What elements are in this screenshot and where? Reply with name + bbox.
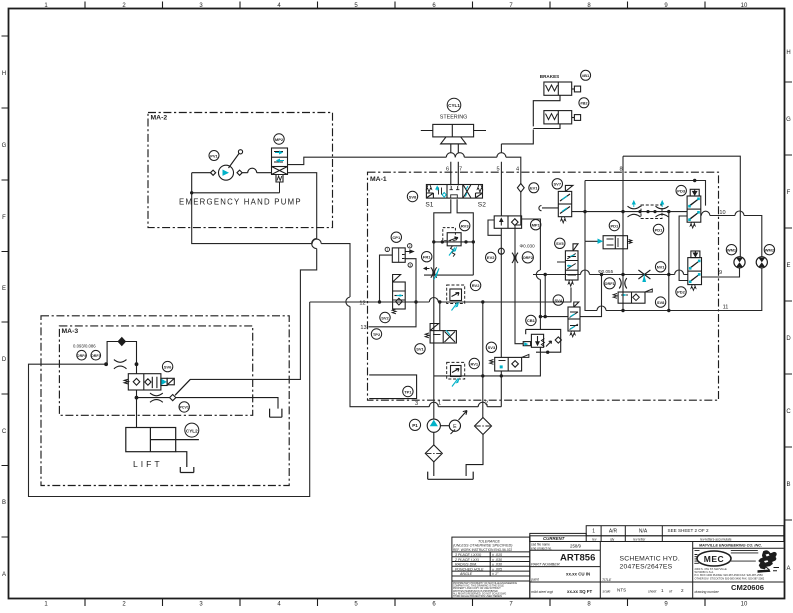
svg-text:± .005: ± .005 xyxy=(492,567,502,571)
wire line 11 xyxy=(585,241,762,310)
label CYL1 xyxy=(447,98,461,112)
wire line 13 xyxy=(369,302,417,327)
wire CP1 loop left xyxy=(380,255,393,302)
junction CP1 loop on line 12 xyxy=(378,300,381,303)
svg-text:CP1: CP1 xyxy=(392,235,401,240)
solenoid valve SV2 xyxy=(392,275,405,314)
svg-text:paint: paint xyxy=(530,578,540,582)
svg-text:SV4: SV4 xyxy=(555,298,563,303)
svg-text:MA-1: MA-1 xyxy=(370,176,387,183)
wire brakes to line 5 xyxy=(501,95,560,144)
svg-text:EV1: EV1 xyxy=(530,186,538,191)
wire SV7 right to divider rail xyxy=(572,211,687,213)
wire TP1 line xyxy=(434,352,541,376)
junction port8 riser on rail xyxy=(621,210,624,213)
svg-text:PD3: PD3 xyxy=(677,188,686,193)
svg-text:2: 2 xyxy=(681,588,684,593)
svg-text:THIRD ANGLE PROJECTION USED HE: THIRD ANGLE PROJECTION USED HEREIN xyxy=(453,595,502,598)
junction SV4 riser on line 9 xyxy=(600,273,603,276)
cylinder CYL1 xyxy=(433,124,474,136)
svg-text:scale: scale xyxy=(603,590,611,594)
company column xyxy=(693,548,784,582)
check valve EV1 xyxy=(517,184,524,193)
svg-text:ART856: ART856 xyxy=(560,553,595,564)
wire line 9 to WM1 xyxy=(702,268,740,277)
solenoid valve SV1 xyxy=(425,324,456,344)
svg-text:13: 13 xyxy=(360,325,366,331)
part number column text xyxy=(530,543,595,595)
wire box rail top xyxy=(585,181,706,242)
current cell xyxy=(530,533,586,541)
solenoid valve SVB xyxy=(613,289,652,303)
wire CB1 to SV4 xyxy=(540,316,568,318)
svg-text:± 1°: ± 1° xyxy=(492,572,499,576)
svg-text:PV1: PV1 xyxy=(210,153,218,158)
svg-text:1: 1 xyxy=(661,588,664,593)
orifice FR1 xyxy=(424,267,437,277)
wire RV3 cross line xyxy=(434,241,474,243)
svg-text:P1: P1 xyxy=(412,423,418,428)
svg-text:NV1: NV1 xyxy=(657,265,666,270)
svg-text:D: D xyxy=(2,357,7,363)
wire SV4 right riser xyxy=(580,275,602,317)
wire line 9 drop to SV4 rail xyxy=(544,275,546,317)
svg-text:H: H xyxy=(2,71,6,77)
svg-text:ANGLE: ANGLE xyxy=(459,572,473,576)
wire port 2 filter return xyxy=(482,302,484,418)
wire line 12 down to tank loop xyxy=(29,302,310,497)
svg-text:xx.xx CU IN: xx.xx CU IN xyxy=(566,572,590,577)
wire line 12 xyxy=(310,288,571,303)
wire hand pump suction to tank line xyxy=(192,193,502,407)
wire CP1 loop right xyxy=(405,259,416,302)
svg-text:RADIUS DIM.: RADIUS DIM. xyxy=(455,563,477,567)
check valve diamond right xyxy=(237,170,242,175)
wire pump to MP2 xyxy=(242,168,271,173)
wire pump left xyxy=(192,173,280,193)
junction drain riser on line 11 xyxy=(667,309,670,312)
svg-text:WM2: WM2 xyxy=(765,248,775,253)
enclosure lift module xyxy=(41,316,289,486)
svg-text:PD2: PD2 xyxy=(677,290,686,295)
valve MP2 xyxy=(272,148,288,167)
label SV6 xyxy=(162,361,172,371)
svg-text:A: A xyxy=(786,566,790,572)
svg-text:PCV1: PCV1 xyxy=(180,406,189,410)
svg-text:SV7: SV7 xyxy=(554,182,562,187)
port numbers xyxy=(359,167,728,408)
svg-text:Φ0.030: Φ0.030 xyxy=(520,244,536,249)
brake cylinder 1 xyxy=(544,82,572,95)
svg-text:± .015: ± .015 xyxy=(492,553,502,557)
junction line 9 drop bottom xyxy=(544,315,547,318)
manifold box MA-2 xyxy=(148,113,333,228)
svg-text:TITLE: TITLE xyxy=(602,578,612,582)
svg-text:B: B xyxy=(2,500,6,506)
svg-text:SV2: SV2 xyxy=(381,315,389,320)
label EV1 xyxy=(529,183,539,193)
svg-text:EMERGENCY HAND PUMP: EMERGENCY HAND PUMP xyxy=(179,198,302,207)
label ORF2 xyxy=(522,252,533,263)
label CYL2 xyxy=(185,423,199,437)
label PD1 (divider) xyxy=(653,224,663,234)
relief valve RV3 xyxy=(443,228,461,257)
svg-text:2: 2 xyxy=(485,400,488,406)
junction PD3 feed on box rail xyxy=(693,179,696,182)
svg-text:PD1: PD1 xyxy=(611,223,620,228)
wire SV3 return down xyxy=(500,228,502,406)
valve SV6 spring xyxy=(124,379,128,384)
svg-text:SV8: SV8 xyxy=(409,194,417,199)
hand pump PV1 xyxy=(219,165,234,180)
label WM1 xyxy=(726,245,736,255)
svg-text:MEC: MEC xyxy=(704,554,724,564)
label SV2 xyxy=(380,312,390,322)
label RV1 xyxy=(469,358,479,368)
svg-text:G: G xyxy=(786,117,791,123)
wire brakes down line 5 xyxy=(500,144,502,216)
filter 2 xyxy=(475,418,492,435)
svg-text:TP2: TP2 xyxy=(373,332,381,337)
brake cylinder 2 xyxy=(544,111,572,124)
wire port 8 riser xyxy=(623,156,740,310)
label PD1 left xyxy=(609,220,619,230)
junction port2 riser on TP1 line xyxy=(481,374,484,377)
svg-text:4: 4 xyxy=(516,167,519,173)
svg-text:3: 3 xyxy=(409,263,411,267)
svg-text:qty: qty xyxy=(610,538,615,542)
valve MP1 xyxy=(494,216,521,228)
svg-text:xx.xx SQ FT: xx.xx SQ FT xyxy=(567,589,592,594)
junction lift valve outlet xyxy=(135,396,139,400)
relief valve RV1 xyxy=(447,362,465,379)
svg-text:A: A xyxy=(2,572,6,578)
svg-text:SV3: SV3 xyxy=(488,345,496,350)
tolerance block text xyxy=(453,540,512,577)
svg-text:SV5: SV5 xyxy=(556,241,564,246)
svg-text:H: H xyxy=(786,50,790,56)
wire PCV1 right to drain xyxy=(176,398,278,409)
svg-text:7: 7 xyxy=(459,167,462,173)
svg-text:2047ES/2647ES: 2047ES/2647ES xyxy=(620,563,673,570)
svg-text:3: 3 xyxy=(415,401,418,407)
company column xyxy=(694,543,779,594)
svg-text:MP2: MP2 xyxy=(275,137,284,142)
svg-text:FR1: FR1 xyxy=(423,255,431,260)
svg-text:G: G xyxy=(2,143,7,149)
svg-text:S2: S2 xyxy=(478,202,486,209)
svg-text:5: 5 xyxy=(496,167,499,173)
node PCV1 diamond xyxy=(170,395,176,401)
svg-text:6: 6 xyxy=(446,167,449,173)
needle valve NV1 xyxy=(638,270,650,279)
cyan pump triangle xyxy=(223,170,230,176)
label WM2 xyxy=(764,245,774,255)
svg-text:(UNLESS OTHERWISE SPECIFIED): (UNLESS OTHERWISE SPECIFIED) xyxy=(453,544,512,548)
svg-text:1: 1 xyxy=(438,400,441,406)
valve SV5 xyxy=(557,244,578,286)
check EV2 xyxy=(498,248,504,254)
label ORF4 xyxy=(77,350,87,360)
svg-text:10: 10 xyxy=(741,3,748,9)
label MP2 xyxy=(274,134,284,144)
junction SV1 feed on line 12 xyxy=(438,300,441,303)
tolerance block outline xyxy=(452,537,530,598)
label #B2 xyxy=(579,98,589,108)
svg-text:MA-3: MA-3 xyxy=(62,328,79,335)
svg-text:F: F xyxy=(2,215,6,221)
label RV3 xyxy=(460,220,470,230)
svg-text:RV3: RV3 xyxy=(461,223,469,228)
svg-text:PART NUMBER: PART NUMBER xyxy=(531,561,560,566)
svg-text:1: 1 xyxy=(592,529,595,535)
title column xyxy=(600,542,692,599)
svg-text:SEE SHEET 2 OF 2: SEE SHEET 2 OF 2 xyxy=(668,528,709,533)
svg-text:REF. WORK INSTRUCTION ENG-56-0: REF. WORK INSTRUCTION ENG-56-022 xyxy=(453,548,512,552)
svg-text:± .030: ± .030 xyxy=(492,563,502,567)
orifice arcs on drain line xyxy=(150,393,163,402)
valve SV6 body xyxy=(128,374,161,390)
node plug diamond xyxy=(118,338,125,346)
junction port2 riser on line 12 xyxy=(481,300,484,303)
wire MA-2 return down to lift valve xyxy=(176,173,317,395)
svg-text:STEERING: STEERING xyxy=(440,115,468,121)
junction RV3 line dots xyxy=(432,240,435,243)
svg-text:eng project no.: eng project no. xyxy=(531,546,552,550)
counterbalance CB1 xyxy=(523,329,561,352)
engine E link xyxy=(440,425,449,427)
label SV4 xyxy=(553,295,563,305)
wire case drain riser xyxy=(668,212,670,311)
svg-text:10: 10 xyxy=(719,210,725,216)
tank drain lift xyxy=(180,467,194,473)
valve SV7 xyxy=(558,185,573,223)
svg-text:MA-2: MA-2 xyxy=(151,115,168,122)
svg-text:CURRENT: CURRENT xyxy=(543,536,565,541)
svg-text:ORF3: ORF3 xyxy=(91,354,101,358)
svg-text:ORF2: ORF2 xyxy=(523,256,533,260)
filter 1 xyxy=(425,445,442,462)
label SVB xyxy=(655,297,665,307)
svg-text:PUNCHED HOLE: PUNCHED HOLE xyxy=(455,567,484,571)
revision table xyxy=(586,526,784,536)
cylinder mount xyxy=(441,137,467,144)
junction CB1 drain xyxy=(546,351,549,354)
svg-text:258/9: 258/9 xyxy=(570,544,582,549)
label CP1 xyxy=(391,232,401,242)
junction orifice loop right xyxy=(135,362,139,366)
svg-text:LIFT: LIFT xyxy=(133,459,163,469)
ruler ticks top/bottom xyxy=(85,2,705,607)
mascot figure xyxy=(694,551,779,573)
label PD2 xyxy=(676,287,686,297)
wire MP1 right pilot to CB1 top xyxy=(522,219,541,329)
label SV3 xyxy=(486,342,496,352)
svg-text:drawing number: drawing number xyxy=(695,590,720,594)
svg-text:EV2: EV2 xyxy=(487,255,495,260)
svg-text:MAYVILLE ENGINEERING CO. INC.: MAYVILLE ENGINEERING CO. INC. xyxy=(699,543,762,547)
flow divider orifices xyxy=(628,205,669,219)
svg-text:1: 1 xyxy=(386,248,388,252)
svg-text:E: E xyxy=(786,263,790,269)
check valve diamond left xyxy=(211,170,216,175)
svg-text:8: 8 xyxy=(619,167,622,173)
wire valve feed xyxy=(136,364,138,427)
svg-text:C: C xyxy=(2,429,7,435)
junction CP1 port3 on line 12 xyxy=(414,300,417,303)
manifold box MA-3 xyxy=(59,326,252,415)
solenoid valve SV3 xyxy=(490,354,529,371)
valve SV4 xyxy=(568,302,580,337)
svg-text:2: 2 xyxy=(409,244,411,248)
wire EV1 line 4 to ORF2/CB1 pilot xyxy=(515,192,523,344)
junction SV7 outlet rail xyxy=(583,210,586,213)
svg-text:RV1: RV1 xyxy=(470,361,478,366)
block TP1 xyxy=(369,375,416,399)
svg-text:D: D xyxy=(786,336,791,342)
svg-text:E: E xyxy=(2,286,6,292)
junction line 9 drop top xyxy=(544,273,547,276)
lift cylinder CYL2 xyxy=(126,428,199,473)
svg-text:CYL2: CYL2 xyxy=(186,428,198,433)
wire pump suction xyxy=(433,432,435,476)
svg-text:10: 10 xyxy=(741,602,748,608)
wire SV7 left plug xyxy=(539,206,558,211)
svg-text:rev letter: rev letter xyxy=(633,538,646,542)
wire filter 2 down xyxy=(466,435,483,477)
svg-text:SV1: SV1 xyxy=(416,347,424,352)
svg-text:#B1: #B1 xyxy=(582,73,590,78)
wire bypass loop xyxy=(107,342,136,365)
wire to PCV1 xyxy=(137,397,170,399)
valve SV6 checks xyxy=(133,378,140,385)
label PD3 xyxy=(676,185,686,195)
wire FR1 line xyxy=(424,274,473,276)
svg-text:F: F xyxy=(787,190,791,196)
svg-text:0.093/0.086: 0.093/0.086 xyxy=(73,343,96,348)
svg-text:ORF4: ORF4 xyxy=(77,354,87,358)
valve SV8 steering directional xyxy=(426,185,482,199)
junction drain riser on line 9 xyxy=(667,273,670,276)
svg-text:CYL1: CYL1 xyxy=(448,103,460,108)
junction drain riser on rail xyxy=(667,210,670,213)
svg-text:B: B xyxy=(786,482,790,488)
motor WM1 xyxy=(734,257,745,268)
junction SV3 drain on TP1 line xyxy=(500,374,503,377)
label ORF1 xyxy=(604,278,615,289)
label SV8 xyxy=(407,191,417,201)
variable arrow xyxy=(459,411,468,421)
svg-text:E: E xyxy=(453,424,457,430)
valve PD2 xyxy=(688,251,702,290)
compensator CP1 xyxy=(385,244,413,268)
valve PD1 proportional xyxy=(598,236,632,249)
label SV1 xyxy=(415,344,425,354)
label P1 xyxy=(409,419,420,430)
label SV7 xyxy=(552,179,562,189)
label FR1 xyxy=(422,252,432,262)
wire PCV1 up branch xyxy=(175,379,190,395)
label MP1 xyxy=(531,220,541,230)
cyan SV8 solenoid marks xyxy=(436,186,468,197)
svg-text:CB1: CB1 xyxy=(527,318,536,323)
part number column xyxy=(530,542,601,599)
svg-text:12: 12 xyxy=(359,301,365,307)
tank drain MA-3 xyxy=(270,409,282,418)
svg-text:11: 11 xyxy=(723,304,729,310)
orifice ORF1 xyxy=(619,278,627,288)
svg-text:PD1: PD1 xyxy=(655,227,664,232)
junction port8 riser on line 9 xyxy=(621,273,624,276)
label SV5 xyxy=(555,238,565,248)
svg-text:Φ0.055: Φ0.055 xyxy=(598,269,614,274)
label RV2 xyxy=(470,280,480,290)
label PV1 xyxy=(209,151,219,161)
svg-text:mild steel wgt: mild steel wgt xyxy=(531,590,554,594)
svg-text:MP1: MP1 xyxy=(532,223,541,228)
cyan pump triangle xyxy=(430,420,438,426)
svg-text:9: 9 xyxy=(719,270,722,276)
svg-text:CM20606: CM20606 xyxy=(731,583,764,592)
svg-text:RV2: RV2 xyxy=(472,283,480,288)
svg-text:± .030: ± .030 xyxy=(492,558,502,562)
svg-text:rev-letters-accumulate: rev-letters-accumulate xyxy=(700,538,732,542)
relief valve RV2 xyxy=(447,285,465,304)
svg-text:NTS: NTS xyxy=(617,588,626,593)
cyan MP2 arrows xyxy=(275,151,284,161)
label TP2 xyxy=(371,329,381,339)
svg-text:SV8: SV8 xyxy=(657,300,665,305)
wire line 9 needle line xyxy=(533,270,688,275)
wire MP2 output to steering/EV1 xyxy=(288,153,521,184)
svg-text:A/R: A/R xyxy=(609,529,618,535)
label CB1 xyxy=(526,315,536,325)
wire PD1 divider left drop xyxy=(679,216,688,281)
tank main xyxy=(428,472,474,480)
svg-text:2 PLACE (.XX): 2 PLACE (.XX) xyxy=(454,558,479,562)
junction port8 riser on line 11 xyxy=(621,309,624,312)
svg-text:3 PLACE (.XXX): 3 PLACE (.XXX) xyxy=(455,553,481,557)
wire SV1 drop xyxy=(439,302,441,331)
valve PD3 xyxy=(687,189,701,228)
svg-text:#B2: #B2 xyxy=(580,101,588,106)
label #B1 xyxy=(581,70,591,80)
junction hand pump suction xyxy=(190,191,193,194)
label PCV1 xyxy=(179,402,189,412)
orifice ORF2 xyxy=(512,253,518,263)
svg-text:P.O. BOX 1000 PHONE: 920-387-: P.O. BOX 1000 PHONE: 920-387-4500 FAX: 9… xyxy=(695,573,764,577)
pump P1 xyxy=(427,419,440,432)
svg-text:SV6: SV6 xyxy=(164,364,172,369)
title column text xyxy=(602,556,684,594)
label ORF3 xyxy=(91,350,101,360)
orifice arcs on feed line xyxy=(114,360,127,369)
svg-text:ORF1: ORF1 xyxy=(605,282,615,286)
svg-text:SCHEMATIC HYD.: SCHEMATIC HYD. xyxy=(620,556,680,563)
wire line 10 xyxy=(701,211,762,257)
svg-text:S1: S1 xyxy=(425,202,433,209)
label NV1 xyxy=(655,262,665,272)
solenoid SV6 xyxy=(161,378,167,385)
wire pump pressure port 1 main vertical xyxy=(434,199,474,419)
cyan SV6 solenoid triangle xyxy=(161,379,166,385)
label TP1 xyxy=(403,386,413,396)
svg-text:C: C xyxy=(786,409,791,415)
motor WM2 xyxy=(756,257,767,268)
manifold box MA-1 xyxy=(368,172,719,400)
label EV2 xyxy=(486,252,496,262)
svg-text:N/A: N/A xyxy=(639,529,648,535)
